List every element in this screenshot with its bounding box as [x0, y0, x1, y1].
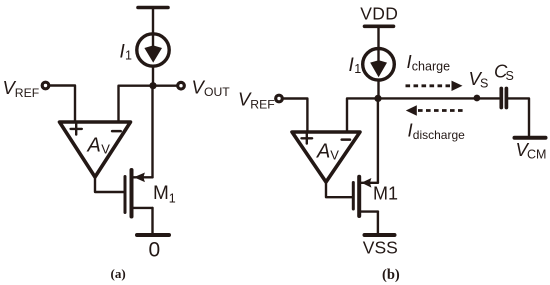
svg-text:charge: charge [412, 60, 450, 74]
svg-text:M: M [153, 183, 169, 204]
svg-text:(b): (b) [382, 267, 400, 283]
svg-text:discharge: discharge [413, 128, 465, 142]
svg-text:1: 1 [125, 49, 132, 63]
svg-text:1: 1 [354, 62, 361, 76]
svg-text:S: S [506, 69, 514, 83]
svg-text:REF: REF [250, 98, 274, 112]
svg-text:0: 0 [149, 239, 161, 262]
svg-text:A: A [87, 135, 101, 157]
svg-text:(a): (a) [111, 266, 126, 281]
svg-text:S: S [480, 76, 488, 90]
svg-text:VDD: VDD [360, 4, 398, 24]
svg-text:OUT: OUT [204, 85, 230, 99]
svg-text:CM: CM [527, 148, 546, 162]
svg-text:REF: REF [15, 86, 39, 100]
svg-text:VSS: VSS [363, 238, 398, 258]
svg-text:V: V [330, 148, 339, 163]
svg-text:V: V [101, 142, 110, 157]
svg-text:M1: M1 [373, 184, 398, 204]
svg-text:A: A [316, 141, 330, 163]
svg-text:1: 1 [169, 192, 176, 206]
